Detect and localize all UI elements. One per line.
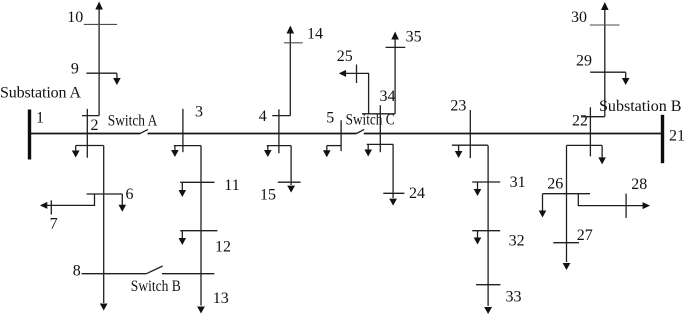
load arrow at bus 26 — [542, 194, 544, 211]
bus 11 tick — [180, 181, 214, 183]
load arrow at bus 9 — [116, 73, 118, 79]
svg-text:5: 5 — [326, 110, 334, 127]
svg-text:Substation A: Substation A — [0, 84, 81, 101]
wire: node 34 upper stub — [362, 113, 395, 115]
load arrow at bus 25 (left) — [339, 70, 346, 77]
bus 26 tick — [543, 193, 591, 195]
svg-text:31: 31 — [510, 174, 526, 191]
svg-text:27: 27 — [577, 227, 593, 244]
wire: riser to bus 35 with source arrow — [394, 34, 396, 114]
wire: spur to bus 7 — [46, 194, 95, 205]
wire: connector to bus 25 — [344, 73, 369, 113]
svg-text:21: 21 — [669, 128, 685, 145]
wire: lateral branch from node 22 down (to 26,27) — [566, 145, 568, 262]
bus 15 tick — [278, 181, 301, 183]
wire: main feeder segment bus1 to Switch A — [30, 133, 140, 135]
bus 30 tick — [590, 24, 620, 26]
node 5 tick — [340, 120, 342, 151]
svg-text:29: 29 — [576, 53, 592, 70]
load arrow at node 3 — [174, 146, 176, 151]
wire: node 23 lower stub — [452, 144, 488, 146]
svg-text:32: 32 — [509, 232, 525, 249]
switch A blade — [140, 129, 148, 133]
wire: node 4 upper stub to riser — [272, 115, 290, 117]
switch B blade — [146, 266, 162, 274]
bus 14 tick — [284, 42, 303, 44]
svg-text:12: 12 — [215, 239, 231, 256]
svg-text:28: 28 — [631, 176, 647, 193]
wire: node 22 upper stub to riser — [582, 116, 605, 118]
wire: node 22 lower stub — [567, 144, 603, 146]
svg-text:25: 25 — [337, 48, 353, 65]
svg-text:34: 34 — [380, 88, 396, 105]
svg-text:4: 4 — [259, 108, 267, 125]
bus 28 tick — [625, 194, 627, 218]
svg-text:Switch B: Switch B — [131, 278, 181, 295]
load arrow at bus 28 (right) — [643, 202, 650, 209]
bus 27 tick — [553, 242, 579, 244]
svg-text:33: 33 — [506, 289, 522, 306]
substation A bar (bus 1) — [28, 110, 31, 160]
load arrow at node 34 — [367, 144, 369, 150]
svg-text:3: 3 — [195, 104, 203, 121]
svg-text:14: 14 — [307, 26, 323, 43]
svg-text:Switch A: Switch A — [108, 112, 158, 129]
load arrow at bus 29 — [625, 72, 627, 79]
wire: lateral branch from node 2 down (to 6,7,8) — [103, 146, 105, 304]
switch C blade — [357, 129, 365, 133]
wire: main feeder segment Switch A to Switch C — [148, 133, 357, 135]
svg-text:2: 2 — [91, 117, 99, 134]
node 4 tick — [278, 109, 280, 153]
load arrow at node 5 — [326, 146, 328, 152]
wire: riser to bus 14 with source arrow — [289, 28, 291, 116]
wire: node 3 lower stub — [174, 145, 201, 147]
svg-text:Substation B: Substation B — [599, 98, 682, 115]
bus 29 tick — [590, 71, 626, 73]
wire: riser to buses 29,30 with source arrow — [604, 4, 606, 117]
node 22 tick — [589, 107, 591, 156]
wire: spur to bus 28 — [578, 194, 645, 206]
load arrow at node 22 — [601, 145, 603, 158]
svg-text:6: 6 — [126, 186, 134, 203]
wire: node 34 lower stub — [367, 143, 394, 145]
wire: spur from node 34 down to bus 24 — [392, 144, 394, 198]
bus 10 tick — [84, 23, 117, 25]
bus 33 tick — [476, 284, 500, 286]
svg-text:10: 10 — [67, 9, 83, 26]
wire: node 2 lower stub — [76, 145, 104, 147]
svg-text:30: 30 — [571, 9, 587, 26]
svg-text:23: 23 — [450, 98, 466, 115]
node 34 tick — [379, 105, 381, 152]
bus 12 tick — [180, 230, 217, 232]
load arrow at bus 12 — [181, 231, 183, 239]
wire: spur from node 4 down to bus 15 — [290, 146, 292, 185]
svg-text:15: 15 — [260, 187, 276, 204]
bus 35 tick — [386, 46, 406, 48]
load arrow at bus 11 — [181, 182, 183, 190]
wire: node 4 lower stub — [267, 145, 291, 147]
node 23 tick — [469, 110, 471, 158]
svg-text:8: 8 — [73, 263, 81, 280]
node 2 tick — [86, 109, 88, 158]
substation B bar (bus 21) — [661, 115, 664, 163]
load arrow at node 4 — [267, 146, 269, 151]
load arrow at node 2 — [75, 146, 77, 152]
wire: lateral branch from node 3 down (to 11,12,13) — [200, 146, 202, 306]
load arrow at node 23 — [458, 145, 460, 151]
svg-text:1: 1 — [36, 110, 44, 127]
node 3 tick — [182, 109, 184, 152]
wire: main feeder segment Switch C to bus 21 — [364, 133, 661, 135]
feeder end arrow below bus 27 — [563, 263, 571, 270]
bus 24 tick — [383, 192, 404, 194]
bus 25 tick — [356, 65, 358, 84]
feeder end arrow at bus 15 — [287, 186, 295, 193]
bus 6 tick — [87, 193, 123, 195]
load arrow at bus 6 — [121, 194, 123, 206]
feeder end arrow below bus 8 — [100, 304, 108, 311]
svg-text:13: 13 — [213, 290, 229, 307]
wire: node 2 upper stub to riser — [82, 115, 99, 117]
wire: bus 8 line to Switch B — [82, 273, 147, 275]
wire: lateral branch from node 23 down (to 31,32,33) — [487, 145, 489, 306]
wire: node 5 lower stub — [327, 145, 341, 147]
svg-text:35: 35 — [406, 28, 422, 45]
svg-text:7: 7 — [50, 215, 58, 232]
svg-text:9: 9 — [71, 60, 79, 77]
bus 7 tick — [50, 200, 52, 214]
load arrow at bus 7 (left) — [40, 202, 47, 209]
feeder end arrow at bus 24 — [389, 199, 397, 206]
svg-text:22: 22 — [572, 113, 588, 130]
feeder end arrow below bus 13 — [197, 307, 205, 314]
wire: Switch B to branch 11-13 — [162, 273, 214, 275]
bus 32 tick — [472, 230, 500, 232]
svg-text:26: 26 — [547, 176, 563, 193]
load arrow at bus 31 — [477, 182, 479, 190]
load arrow at bus 32 — [477, 231, 479, 238]
svg-text:24: 24 — [409, 185, 425, 202]
bus 9 tick — [86, 72, 117, 74]
bus 31 tick — [472, 181, 500, 183]
feeder end arrow below bus 33 — [484, 307, 492, 314]
svg-text:11: 11 — [224, 177, 239, 194]
wire: riser to buses 9,10 with source arrow — [98, 4, 100, 116]
